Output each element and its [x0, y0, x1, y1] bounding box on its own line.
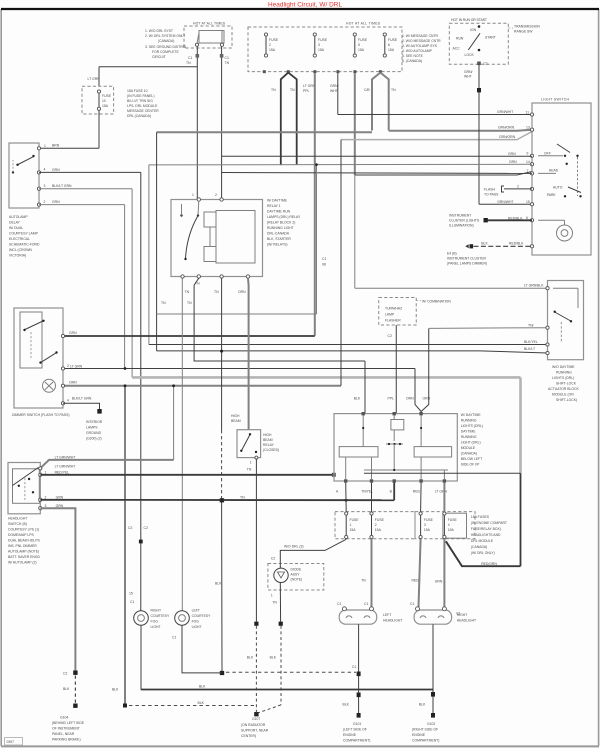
svg-text:TN: TN [271, 88, 276, 92]
pale wire to light switch pin2 [341, 132, 532, 140]
svg-text:15A: 15A [448, 528, 455, 532]
svg-text:(BEHIND LEFT SIDE: (BEHIND LEFT SIDE [52, 721, 85, 725]
wire HL switch pin4 to left ground chain [40, 508, 77, 708]
svg-text:INSTRUMENT CLUSTER: INSTRUMENT CLUSTER [447, 257, 486, 261]
svg-text:LPS, DRL MODULE: LPS, DRL MODULE [127, 104, 158, 108]
svg-text:INCL (CROWN: INCL (CROWN [9, 248, 32, 252]
svg-text:(CANADA): (CANADA) [158, 39, 174, 43]
svg-text:BLK: BLK [63, 687, 70, 691]
wire dimmer pin2 bus to module V-merge [63, 328, 429, 414]
svg-text:LIGHT SWITCH: LIGHT SWITCH [541, 98, 570, 102]
DRL module exit wire right [364, 472, 521, 474]
svg-text:2: 2 [215, 193, 217, 197]
DRL relay bottom pins [181, 275, 250, 278]
svg-text:LT GRN: LT GRN [88, 77, 101, 81]
svg-text:(IN ENGINE COMPART: (IN ENGINE COMPART [471, 521, 507, 525]
svg-text:4: 4 [67, 399, 69, 403]
fuse 1 (15A) [264, 33, 278, 57]
wire switch1 pin4 down x125 [39, 205, 125, 369]
svg-text:RUNNING: RUNNING [461, 435, 477, 439]
label HOT W/ IGN SWITCH [451, 18, 487, 22]
vertical x125 ground chain [123, 386, 127, 708]
svg-text:AUTO: AUTO [553, 186, 563, 190]
svg-text:TN: TN [272, 601, 277, 605]
vertical x148.9 to control module wire [148, 165, 150, 345]
svg-text:CIRCUIT: CIRCUIT [152, 55, 166, 59]
svg-text:1: 1 [192, 193, 194, 197]
DRL relay box [171, 200, 263, 277]
junction to HL switch via x173.6 [40, 386, 173, 469]
fuse 4 (15A) [383, 33, 398, 57]
svg-text:C1: C1 [322, 257, 326, 261]
svg-text:LIGHTS (DRL): LIGHTS (DRL) [461, 424, 483, 428]
svg-text:2. W/O MESSAGE CNTR: 2. W/O MESSAGE CNTR [402, 39, 441, 43]
svg-text:HEAD: HEAD [549, 169, 559, 173]
svg-text:C2: C2 [128, 526, 132, 530]
svg-text:TN: TN [187, 301, 192, 305]
svg-text:BEAM: BEAM [263, 438, 273, 442]
svg-text:1. W/O DRL SYST: 1. W/O DRL SYST [145, 29, 173, 33]
svg-text:(CANADA): (CANADA) [461, 452, 477, 456]
fuse 2 (15A) [313, 33, 328, 57]
gray bus from twin-lead2 left leg to mid verticals [157, 131, 372, 133]
svg-text:W/O DAYTIME: W/O DAYTIME [552, 365, 575, 369]
svg-text:TURN/HAZ: TURN/HAZ [385, 307, 402, 311]
svg-text:G104: G104 [60, 716, 68, 720]
svg-text:AUTOLAMP (NOTE): AUTOLAMP (NOTE) [8, 550, 39, 554]
svg-text:FUSE: FUSE [269, 38, 279, 42]
svg-text:FUSE/RELAY BOX): FUSE/RELAY BOX) [471, 527, 501, 531]
relay pin1 wire down to y361 bus [194, 278, 365, 414]
autolamp switch contacts [12, 155, 35, 174]
svg-text:LAMPS (DRL) RELAY: LAMPS (DRL) RELAY [267, 215, 301, 219]
connector mark on lamp1 feed [128, 526, 148, 543]
svg-text:LOCK: LOCK [465, 53, 475, 57]
label LIGHT SWITCH [541, 98, 570, 102]
svg-text:FOG: FOG [192, 620, 200, 624]
svg-text:ORN: ORN [406, 397, 414, 401]
G104 ground text [52, 716, 85, 742]
label HI/LO small [161, 301, 192, 305]
svg-text:TN: TN [361, 579, 366, 583]
wire switch1 pin2 to lamp1 (long vertical x141) [39, 172, 141, 610]
wire HL switch pin3 thick to module bottom pin [40, 481, 394, 502]
svg-text:TRANSMISSION: TRANSMISSION [514, 25, 540, 29]
svg-text:C1: C1 [352, 665, 356, 669]
svg-text:TN: TN [391, 88, 396, 92]
svg-text:GRN: GRN [508, 152, 516, 156]
circuit breaker CB inside [195, 31, 224, 47]
page border right edge [598, 9, 600, 746]
svg-text:(ON RADIATOR: (ON RADIATOR [241, 723, 266, 727]
svg-text:BLK: BLK [481, 241, 488, 245]
svg-text:TN: TN [185, 290, 190, 294]
svg-text:2: 2 [517, 185, 519, 189]
svg-text:HEADLIGHTS AND: HEADLIGHTS AND [471, 533, 501, 537]
turn/hazard flasher dashed box [379, 298, 417, 326]
svg-text:3. SEE GROUND DISTRIB: 3. SEE GROUND DISTRIB [145, 45, 187, 49]
svg-text:C1: C1 [225, 56, 229, 60]
svg-text:OFF: OFF [544, 152, 551, 156]
svg-text:3: 3 [424, 523, 426, 527]
dimmer switch box [14, 308, 63, 408]
wire fuse1 to diode [271, 539, 346, 568]
svg-text:W/ DAYTIME: W/ DAYTIME [461, 413, 482, 417]
svg-text:1: 1 [250, 461, 252, 465]
headlight switch box [8, 463, 40, 514]
svg-text:08: 08 [322, 263, 326, 267]
svg-text:BATT. SAVER ENGD: BATT. SAVER ENGD [8, 555, 40, 559]
fuse panel text block [127, 89, 159, 118]
wire twin-lead1 bus to light switch (GRN) [149, 160, 532, 165]
svg-text:RED/YEL: RED/YEL [55, 470, 70, 474]
svg-text:RUNNING: RUNNING [461, 419, 477, 423]
dimmer pin labels [70, 364, 92, 400]
DRL control module text [548, 365, 580, 402]
svg-text:BLK/LT GRN: BLK/LT GRN [52, 184, 72, 188]
svg-text:COMPARTMENT): COMPARTMENT) [412, 739, 439, 743]
svg-text:SHIFT-LOCK: SHIFT-LOCK [556, 382, 577, 386]
svg-text:RUN: RUN [456, 37, 464, 41]
svg-text:START: START [485, 36, 496, 40]
high beam relay text [263, 433, 279, 452]
svg-text:W/ DAYTIME: W/ DAYTIME [267, 199, 288, 203]
svg-text:DRL MODULE: DRL MODULE [471, 539, 494, 543]
svg-text:2: 2 [44, 200, 46, 204]
svg-text:PARK: PARK [547, 193, 557, 197]
wire HL switch pin2 to DRL module left pin [40, 473, 336, 477]
svg-text:1. W/ MESSAGE CNTR: 1. W/ MESSAGE CNTR [402, 34, 439, 38]
DRL indicator lamp 1 label [151, 609, 171, 630]
fuse row dashed boxes [335, 512, 475, 539]
wire col B branch2 to light switch [222, 172, 532, 175]
DRL relay internal contacts [180, 201, 199, 260]
wire fuse3 column to light switch [355, 73, 532, 175]
svg-text:GRN: GRN [509, 160, 517, 164]
G107 ground merge [241, 712, 269, 738]
vertical x341 light switch chain [340, 140, 342, 386]
svg-text:RIGHT: RIGHT [457, 613, 468, 617]
svg-text:10: 10 [102, 99, 106, 103]
svg-text:RED: RED [412, 579, 420, 583]
DRL relay coils [204, 211, 255, 264]
svg-text:15: 15 [129, 592, 133, 596]
svg-text:C1: C1 [130, 600, 134, 604]
svg-text:BLK: BLK [199, 685, 206, 689]
svg-text:GRN: GRN [435, 580, 443, 584]
svg-text:BLK: BLK [270, 656, 277, 660]
svg-text:5. SEE NOTE: 5. SEE NOTE [402, 54, 424, 58]
svg-text:VICTORIA): VICTORIA) [9, 254, 26, 258]
svg-text:15A FUSE 10: 15A FUSE 10 [127, 89, 148, 93]
svg-text:HEADLIGHT: HEADLIGHT [457, 619, 476, 623]
svg-text:C2: C2 [144, 526, 148, 530]
svg-text:BLK: BLK [247, 656, 254, 660]
svg-text:15A: 15A [358, 48, 365, 52]
svg-text:ACC: ACC [453, 47, 461, 51]
svg-text:TN: TN [240, 495, 245, 499]
wire flasher to module [388, 325, 397, 414]
svg-text:FUSE: FUSE [448, 518, 458, 522]
instrument cluster feed [449, 214, 532, 228]
svg-text:GRN/ORN: GRN/ORN [499, 135, 516, 139]
distribution box (dashed, top left) [184, 26, 232, 48]
svg-text:9: 9 [527, 152, 529, 156]
left headlight label [383, 613, 402, 623]
relay pin3 wire down (dashed mid) [214, 278, 224, 675]
fuse row fuse C [419, 512, 434, 539]
diode assembly header [284, 545, 303, 549]
svg-text:G102: G102 [427, 722, 435, 726]
svg-text:ORN: ORN [69, 381, 77, 385]
DRL module internals [339, 415, 451, 479]
svg-text:BLK/LT: BLK/LT [524, 347, 535, 351]
twin-lead merge 1 below fuse box [271, 73, 297, 166]
dimmer ground wire [63, 403, 102, 413]
power distribution box (dashed) [248, 27, 402, 72]
svg-text:BLK: BLK [343, 703, 350, 707]
svg-text:BLK/LT GRN: BLK/LT GRN [72, 397, 92, 401]
svg-text:SIDE OF I/P: SIDE OF I/P [461, 463, 480, 467]
svg-text:BLK/YEL: BLK/YEL [524, 340, 538, 344]
svg-text:(CLOSED): (CLOSED) [263, 448, 279, 452]
high beam relay output wire [247, 456, 259, 713]
svg-text:RUNNING: RUNNING [556, 371, 572, 375]
svg-text:MESSAGE CENTER: MESSAGE CENTER [127, 109, 159, 113]
svg-text:RANGE SW: RANGE SW [514, 30, 533, 34]
svg-text:LT GRN/WHT: LT GRN/WHT [55, 455, 76, 459]
svg-text:RELAY 1: RELAY 1 [267, 204, 281, 208]
relay lamp wire down to lamp2 [182, 278, 189, 610]
svg-text:C1: C1 [172, 636, 176, 640]
svg-text:INS. PNL DIMMER: INS. PNL DIMMER [8, 544, 37, 548]
svg-text:W/O DRL (3): W/O DRL (3) [284, 545, 303, 549]
DRL relay top pins [192, 193, 223, 201]
fuse 3 (15A) [353, 33, 368, 57]
E4 dimmer feed connector [447, 241, 532, 265]
footer stamp box bottom-left [5, 738, 23, 746]
svg-text:COMPARTMENT): COMPARTMENT) [343, 739, 370, 743]
svg-text:3: 3 [318, 43, 320, 47]
svg-text:FUSE: FUSE [358, 38, 368, 42]
wire switch1 pin3 to pale bus [39, 189, 132, 378]
autolamp switch pins [37, 147, 45, 207]
svg-text:COURTESY: COURTESY [192, 614, 212, 618]
gray bus from twin-lead2 right leg to light switch pin2 [389, 126, 532, 131]
wire 337.8 column to light switch pin 1 [338, 73, 532, 114]
svg-text:MODULE (ON: MODULE (ON [552, 393, 574, 397]
svg-text:BEAM: BEAM [231, 419, 241, 423]
DRL indicator lamp 1 [130, 600, 148, 690]
svg-text:TN: TN [247, 468, 252, 472]
thick wire dimmer pin1 to fuse2 column (lo beam) [63, 331, 315, 336]
svg-text:6. (CANADA): 6. (CANADA) [402, 59, 422, 63]
svg-text:TN: TN [195, 282, 200, 286]
svg-text:(G200) (2): (G200) (2) [86, 437, 102, 441]
svg-text:HOT AT ALL TIMES: HOT AT ALL TIMES [346, 22, 381, 26]
svg-text:GRN: GRN [52, 200, 60, 204]
svg-text:RED/BLK: RED/BLK [508, 216, 523, 220]
svg-text:RED: RED [413, 490, 421, 494]
svg-text:COURTESY: COURTESY [151, 614, 171, 618]
DRL module top pin squares [362, 412, 423, 415]
svg-text:IGN: IGN [470, 28, 477, 32]
svg-text:FLASH: FLASH [484, 188, 495, 192]
DRL module pin labels below [336, 490, 447, 494]
fuse row fuse B [370, 512, 385, 539]
long wire y351 to control module [157, 347, 548, 353]
svg-text:RUNNING LIGHT: RUNNING LIGHT [267, 226, 294, 230]
svg-text:LAMPS: LAMPS [86, 426, 98, 430]
svg-text:HEADLIGHT: HEADLIGHT [383, 619, 402, 623]
right headlight label [457, 613, 476, 623]
annotation list top-left [145, 29, 187, 59]
svg-text:FOR COMPLETE: FOR COMPLETE [152, 50, 179, 54]
svg-text:COURTESY LPS (1): COURTESY LPS (1) [8, 528, 39, 532]
svg-text:TN: TN [186, 61, 191, 65]
svg-text:HOT IN RUN OR START: HOT IN RUN OR START [451, 18, 487, 22]
svg-text:5: 5 [358, 43, 360, 47]
svg-text:TO PASS: TO PASS [484, 193, 499, 197]
svg-text:BRN: BRN [52, 144, 60, 148]
vertical x156.6 from gray bus [156, 132, 158, 351]
svg-text:ENGINE: ENGINE [343, 733, 357, 737]
panel lamp in light switch [538, 220, 573, 241]
svg-text:2: 2 [375, 523, 377, 527]
svg-text:15A: 15A [318, 48, 325, 52]
svg-text:15A FUSES: 15A FUSES [471, 515, 490, 519]
chain module exit to fuse4 via x520 [446, 473, 521, 566]
lamp1 feed connector label [129, 592, 133, 596]
svg-text:W/ DUAL: W/ DUAL [9, 226, 23, 230]
svg-text:C1: C1 [410, 602, 414, 606]
diode assembly dashed box [268, 564, 324, 591]
svg-text:ORN: ORN [238, 290, 246, 294]
svg-text:C1: C1 [337, 602, 341, 606]
svg-text:GRN: GRN [69, 331, 77, 335]
svg-text:2: 2 [45, 496, 47, 500]
svg-text:(NOTE): (NOTE) [291, 578, 303, 582]
svg-text:LIGHTS (DRL): LIGHTS (DRL) [552, 376, 574, 380]
label HOT AT ALL TIMES (left box) [193, 22, 226, 26]
G101 text [343, 722, 370, 743]
fuse row to headlights wires [361, 539, 462, 607]
svg-text:DIODE: DIODE [291, 568, 302, 572]
svg-text:LT GRN/BLK: LT GRN/BLK [524, 284, 544, 288]
svg-text:BLK: BLK [198, 701, 205, 705]
svg-text:G101: G101 [353, 722, 361, 726]
twin-lead merge 2 below fuse box [364, 73, 396, 131]
svg-text:15A: 15A [388, 48, 395, 52]
svg-text:C/B: C/B [364, 88, 370, 92]
svg-text:4: 4 [44, 168, 46, 172]
top rule [1, 8, 599, 10]
svg-text:LT GRN: LT GRN [303, 84, 316, 88]
svg-text:2: 2 [67, 364, 69, 368]
svg-text:GRN: GRN [52, 168, 60, 172]
terminal dots on box bottom edge [263, 70, 382, 73]
annotation list 2 (near ignition) [402, 34, 441, 63]
svg-text:DAYTIME RUN: DAYTIME RUN [267, 210, 291, 214]
svg-text:MODULE: MODULE [461, 446, 476, 450]
dashed wire from junction to left headlight wire [226, 671, 356, 673]
dimmer switch label [12, 413, 69, 417]
junction dots [124, 163, 318, 387]
svg-text:LIGHT: LIGHT [192, 625, 202, 629]
svg-text:HOT AT ALL TIMES: HOT AT ALL TIMES [193, 22, 226, 26]
DRL control module box [548, 281, 584, 360]
svg-text:TN: TN [214, 290, 219, 294]
svg-text:C2: C2 [271, 557, 275, 561]
svg-text:W/ COMBINATION: W/ COMBINATION [422, 300, 451, 304]
svg-text:FUSE: FUSE [375, 518, 385, 522]
title: Headlight Circuit, W/ DRL [268, 2, 342, 9]
DRL indicator lamp 2 label [192, 609, 212, 630]
svg-text:C2: C2 [388, 334, 392, 338]
svg-text:DRL (CANADA): DRL (CANADA) [127, 114, 151, 118]
wire y328 control module to V-merge [429, 323, 548, 328]
svg-text:1: 1 [44, 144, 46, 148]
svg-text:GRN: GRN [56, 495, 64, 499]
svg-text:AUTOLAMP: AUTOLAMP [9, 215, 28, 219]
svg-text:LEFT: LEFT [383, 613, 391, 617]
svg-text:DRL-CANADA: DRL-CANADA [267, 232, 290, 236]
svg-text:WHT: WHT [464, 75, 472, 79]
svg-text:TN: TN [290, 88, 295, 92]
page border left edge [0, 9, 2, 746]
svg-text:ACTUATOR BLOCK: ACTUATOR BLOCK [548, 387, 580, 391]
DRL module bottom pin squares [344, 479, 446, 482]
branch y314 [157, 165, 317, 314]
fuse box small (dashed) [82, 86, 114, 114]
svg-text:G107: G107 [252, 717, 260, 721]
svg-text:3: 3 [44, 184, 46, 188]
dashed ground wire from x125 to merge [112, 688, 254, 706]
svg-text:RIGHT: RIGHT [151, 609, 162, 613]
svg-text:6: 6 [388, 43, 390, 47]
svg-text:GRN/: GRN/ [464, 70, 473, 74]
svg-text:ASSY: ASSY [291, 573, 301, 577]
svg-text:3. W/ AUTOLAMP SYS: 3. W/ AUTOLAMP SYS [402, 44, 438, 48]
svg-text:6: 6 [526, 216, 528, 220]
svg-text:15A: 15A [424, 528, 431, 532]
svg-text:LT GRN: LT GRN [435, 490, 448, 494]
svg-text:FUSE: FUSE [424, 518, 434, 522]
DRL indicator lamp 2 [172, 611, 222, 673]
autolamp switch box [9, 143, 39, 208]
svg-text:TN: TN [161, 301, 166, 305]
interior lamps ground text [86, 420, 103, 441]
svg-text:BLK: BLK [419, 703, 426, 707]
svg-text:DELAY: DELAY [9, 221, 21, 225]
right headlight ground wire [419, 624, 435, 717]
svg-text:OF INSTRUMENT: OF INSTRUMENT [52, 727, 80, 731]
svg-text:ELECTRICAL: ELECTRICAL [9, 237, 30, 241]
svg-text:TN/: TN/ [528, 323, 534, 327]
svg-text:INTERIOR: INTERIOR [86, 420, 103, 424]
svg-text:BLK: BLK [354, 397, 361, 401]
headlight switch pin labels [55, 470, 70, 508]
svg-text:FLASHER: FLASHER [385, 319, 401, 323]
svg-text:14: 14 [526, 160, 530, 164]
autolamp pin labels [52, 168, 72, 204]
DRL relay text block [267, 199, 301, 247]
wire column B from breaker [220, 46, 230, 199]
wire fuse2 column (thick gray) to dimmer [314, 73, 316, 336]
fuse row fuse A [345, 512, 360, 539]
svg-text:RED/BLK: RED/BLK [509, 241, 524, 245]
svg-text:SHIFT-LOCK): SHIFT-LOCK) [556, 398, 577, 402]
